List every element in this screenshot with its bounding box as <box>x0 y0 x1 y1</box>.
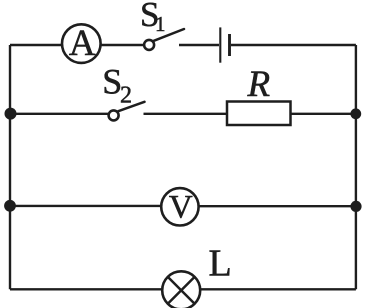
svg-text:V: V <box>169 190 193 226</box>
svg-text:2: 2 <box>120 83 132 109</box>
svg-text:A: A <box>69 23 96 64</box>
svg-text:L: L <box>209 242 232 284</box>
svg-text:1: 1 <box>155 12 166 36</box>
svg-text:R: R <box>247 64 271 105</box>
